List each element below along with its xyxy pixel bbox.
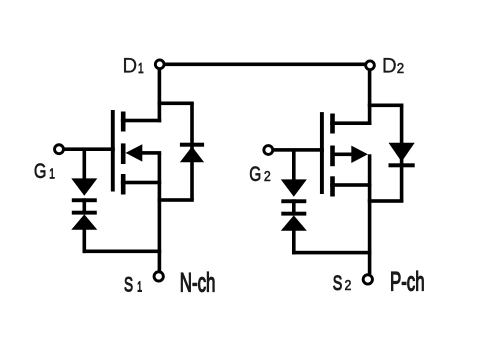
transistor Q1 body arrow (points into channel: N-ch) (126, 144, 143, 161)
terminal G2 (264, 146, 273, 155)
wire: D2 down to Q2 drain stub (368, 65, 372, 125)
wire: Q2 body connection from channel to arrow (331, 153, 353, 157)
terminal S2 (363, 275, 372, 284)
svg-text:S: S (333, 271, 343, 294)
transistor Q1 gate bar (111, 110, 115, 192)
wire: Z2a-Z2b cathode link (292, 199, 296, 215)
wire: Z1b anode down (83, 229, 87, 253)
wire: Q1 body-diode top branch (158, 102, 194, 106)
terminal S1 (154, 272, 163, 281)
svg-text:2: 2 (397, 60, 405, 77)
label G1 (34, 159, 55, 183)
zener Z1b cathode bar (72, 211, 97, 215)
diode D2b cathode bar (389, 163, 415, 167)
wire: Q1 source stub (121, 181, 161, 185)
wire: zener return to S1 rail (83, 250, 162, 254)
wire: G1 lead to Q1 gate (63, 147, 115, 151)
wire: branch down through body diode D2b (400, 105, 404, 201)
svg-text:N-ch: N-ch (180, 267, 216, 297)
wire: top drain bus connecting D1 to D2 (160, 63, 370, 67)
zener Z2b anode triangle (pointing up) (281, 215, 307, 230)
svg-text:2: 2 (344, 277, 351, 293)
terminal D2 (366, 61, 375, 70)
svg-text:2: 2 (264, 168, 271, 184)
wire: Z2b anode down (292, 230, 296, 254)
terminal G1 (55, 145, 64, 154)
transistor Q2 body arrow (points out of channel: P-ch) (351, 146, 368, 163)
svg-text:D: D (382, 54, 397, 77)
wire: Q2 source stub (330, 183, 371, 187)
transistor Q2 channel segment (body) (330, 146, 335, 167)
label S1 (124, 272, 142, 296)
terminal D1 (155, 60, 164, 69)
wire: branch down through body diode D1b (190, 103, 194, 200)
transistor Q1 channel segment (drain side) (121, 112, 126, 132)
zener Z2a anode triangle (pointing down) (281, 179, 307, 196)
svg-text:P-ch: P-ch (390, 266, 425, 296)
wire: gate branch down to zener stack Z1 (83, 149, 87, 179)
diode D1b cathode bar (180, 143, 204, 147)
svg-text:G: G (249, 161, 261, 185)
svg-text:D: D (122, 54, 137, 77)
wire: Q1 body-diode bottom branch to source rail (158, 198, 194, 202)
svg-text:1: 1 (49, 165, 55, 182)
transistor Q2 channel segment (source side) (330, 176, 335, 196)
label D2 (382, 54, 404, 77)
zener Z2b cathode bar (281, 212, 306, 216)
wire: Q1 source rail down to S1 (158, 153, 162, 271)
wire: Q2 body-diode top branch (368, 104, 404, 108)
wire: Q2 body-diode bottom branch to source rail (368, 199, 404, 203)
transistor Q2 gate bar (320, 112, 324, 194)
wire: zener return to S2 rail (292, 251, 371, 255)
zener Z1a anode triangle (pointing down) (71, 178, 97, 195)
svg-text:S: S (124, 272, 133, 296)
zener Z1b anode triangle (pointing up) (71, 214, 97, 229)
diode D2b anode triangle (pointing down) (389, 143, 415, 162)
diode D1b anode triangle (pointing up) (180, 147, 204, 163)
label D1 (122, 54, 143, 77)
wire: gate branch down to zener stack Z2 (292, 150, 296, 181)
transistor Q1 channel segment (source side) (121, 174, 126, 195)
wire: G2 lead to Q2 gate (272, 148, 324, 152)
wire: Q2 drain stub (330, 121, 371, 125)
transistor Q1 channel segment (body) (121, 143, 126, 164)
label S2 (333, 271, 352, 294)
wire: Q2 source rail down to S2 (368, 154, 372, 274)
wire: D1 down to Q1 drain stub (158, 64, 162, 122)
wire: Q1 drain stub (121, 119, 161, 123)
svg-text:1: 1 (137, 278, 142, 295)
wire: Q1 body connection to source rail (141, 151, 161, 155)
svg-text:1: 1 (138, 59, 144, 76)
transistor Q2 channel segment (drain side) (330, 114, 335, 134)
zener Z1a cathode bar (72, 198, 97, 202)
label G2 (249, 161, 271, 185)
wire: Z1a-Z1b cathode link (83, 198, 87, 214)
svg-text:G: G (34, 159, 47, 183)
zener Z2a cathode bar (281, 199, 306, 203)
